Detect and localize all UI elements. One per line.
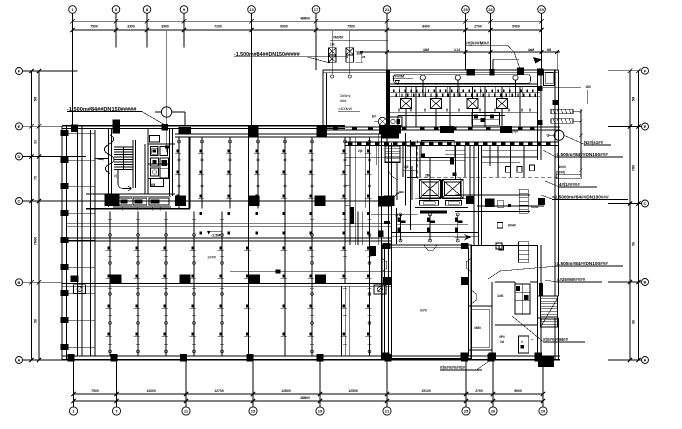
svg-text:C: C: [644, 201, 647, 206]
svg-text:3300: 3300: [127, 24, 135, 28]
svg-text:7500: 7500: [91, 389, 99, 393]
right dimension lines: [628, 69, 641, 363]
hall conduit lines upper: [179, 137, 258, 209]
svg-text:5M: 5M: [632, 96, 636, 101]
hall sprinkler circles: [109, 140, 371, 353]
panel feeder box: [372, 115, 402, 127]
svg-text:4aM: 4aM: [528, 48, 535, 52]
lobby partition lines: [482, 146, 538, 178]
svg-text:58: 58: [632, 242, 636, 246]
svg-text:26: 26: [491, 409, 496, 414]
left axis bubbles: [16, 68, 23, 364]
mid block corner blob: [382, 130, 399, 139]
annotation to 1# room: [545, 181, 597, 187]
annotation N2 line: [564, 135, 611, 145]
hall top wall: [175, 134, 392, 137]
passage lines above boiler room: [392, 233, 538, 246]
power room dividers: [390, 86, 537, 126]
annotation inlet DN150 right: [543, 150, 623, 157]
svg-text:7500: 7500: [347, 24, 355, 28]
svg-text:2|3: 2|3: [404, 165, 409, 169]
toilet hall divider wall: [188, 137, 190, 209]
power room stems: [399, 86, 522, 96]
corridor circles: [420, 75, 518, 97]
entry columns: [489, 353, 543, 361]
bottom dimension band: [71, 389, 545, 403]
annotation inlet left: [67, 107, 167, 126]
stair break line: [95, 135, 114, 174]
panel feeder runs: [398, 109, 505, 127]
corridor label: [393, 75, 414, 85]
top axis stems: [73, 13, 542, 143]
svg-text:N2#|±1##: N2#|±1##: [584, 140, 604, 145]
svg-text:1#K: 1#K: [497, 294, 504, 298]
svg-text:#|: #|: [114, 174, 117, 178]
svg-text:98: 98: [632, 320, 636, 324]
entry hall walls: [492, 282, 538, 356]
svg-text:D: D: [18, 154, 21, 159]
svg-text:33: 33: [34, 140, 38, 144]
annotation basement lighting: [512, 316, 585, 342]
corridor lines: [386, 70, 537, 132]
boiler feed conduits: [398, 213, 463, 242]
boiler door notches: [382, 245, 472, 272]
svg-text:9600: 9600: [514, 389, 522, 393]
svg-text:25: 25: [464, 409, 469, 414]
boiler room: [382, 245, 472, 358]
hall device marks: [106, 150, 372, 345]
power block outer walls: [323, 70, 559, 143]
right axis bubbles: [642, 67, 649, 363]
panel bus lines: [390, 89, 540, 96]
svg-text:25: 25: [463, 7, 468, 12]
svg-text:9#4#: 9#4#: [508, 224, 516, 228]
svg-text:58: 58: [34, 319, 38, 323]
right shaft wall: [538, 70, 542, 160]
middle block walls: [345, 137, 530, 245]
svg-text:=400kW: =400kW: [338, 107, 352, 111]
svg-text:7M0: 7M0: [632, 165, 636, 172]
svg-text:7500: 7500: [90, 24, 98, 28]
svg-text:13300: 13300: [146, 389, 156, 393]
toilet fixtures: [150, 136, 170, 188]
svg-text:A: A: [18, 358, 21, 363]
riser shaft bottom: [515, 284, 530, 314]
svg-text:-1.500m#84##DN150###: -1.500m#84##DN150###: [555, 152, 608, 157]
svg-text:8400: 8400: [422, 24, 430, 28]
svg-text:15100: 15100: [421, 389, 431, 393]
right lower walls: [538, 143, 559, 360]
svg-text:5400: 5400: [512, 24, 520, 28]
svg-text:#|#######|#: #|#######|#: [440, 365, 466, 370]
electrical closet: [519, 336, 533, 353]
svg-text:1###: 1###: [207, 255, 217, 260]
svg-text:6900: 6900: [280, 24, 288, 28]
hall level mark: [207, 231, 222, 238]
toilet stalls: [113, 196, 171, 210]
svg-text:?: ?: [531, 338, 533, 342]
lobby fixtures: [497, 130, 518, 229]
svg-text:29: 29: [539, 7, 544, 12]
shaft cabinet upper: [496, 242, 529, 262]
svg-text:2700: 2700: [474, 24, 482, 28]
svg-text:19: 19: [318, 409, 323, 414]
meter boxes: [328, 31, 388, 78]
svg-text:E: E: [644, 124, 647, 129]
power block floor band: [323, 125, 560, 134]
svg-text:44M: 44M: [423, 48, 430, 52]
boiler room columns: [382, 243, 469, 361]
svg-text:2#5m|: 2#5m|: [340, 94, 350, 98]
svg-text:48M00: 48M00: [300, 17, 310, 21]
cable tray outline: [394, 75, 531, 84]
svg-text:9#4#: 9#4#: [531, 205, 539, 209]
annotation basement feed: [440, 358, 494, 370]
svg-text:=1.5000m#84##DN100###: =1.5000m#84##DN100###: [552, 194, 609, 199]
svg-text:4#25#M#####: 4#25#M#####: [557, 277, 586, 282]
svg-text:E#: E#: [372, 115, 376, 119]
svg-text:###: ###: [340, 99, 347, 103]
hall corridor band: [67, 209, 392, 274]
svg-text:12800: 12800: [281, 389, 291, 393]
annotation outdoor supply: [465, 41, 520, 71]
svg-text:2|4: 2|4: [358, 149, 363, 153]
svg-text:3900: 3900: [161, 24, 169, 28]
svg-text:13: 13: [249, 7, 254, 12]
hall right wall: [378, 133, 405, 360]
svg-text:21: 21: [385, 409, 390, 414]
middle block band: [345, 142, 559, 146]
hall room label: [207, 255, 217, 260]
svg-text:5M: 5M: [34, 96, 38, 101]
bottom axis stems: [74, 361, 544, 407]
annotation inlet DN100 right: [541, 194, 628, 199]
top wall columns: [71, 120, 399, 137]
svg-text:180: 180: [585, 85, 591, 89]
secondary top dimension line: [360, 48, 591, 104]
annotation branch shaft: [556, 165, 581, 179]
elevator shafts: [415, 141, 468, 208]
annotation busbar symbols: [551, 109, 583, 177]
B axis band: [62, 283, 392, 286]
svg-text:-1.5M: -1.5M: [211, 234, 220, 238]
svg-text:#M#5#: #M#5#: [333, 36, 343, 40]
left wall columns: [61, 130, 96, 350]
mid stair door arcs: [371, 170, 418, 218]
svg-text:1M: 1M: [330, 43, 335, 47]
svg-text:17: 17: [314, 7, 319, 12]
mid-right connection lines: [358, 146, 498, 246]
svg-text:26: 26: [488, 7, 493, 12]
svg-text:-1.500m#84##DN150#####: -1.500m#84##DN150#####: [234, 52, 300, 58]
stair block walls: [86, 129, 175, 207]
riser cabinet: [519, 189, 538, 213]
B axis columns: [111, 275, 326, 284]
LV switch room: [472, 113, 500, 126]
svg-text:-1.500m#84##DN100###: -1.500m#84##DN100###: [555, 261, 608, 266]
middle block lower walls: [350, 207, 469, 256]
svg-text:21: 21: [385, 7, 390, 12]
C axis columns: [105, 194, 395, 206]
svg-text:#P#: #P#: [499, 335, 505, 339]
svg-text:|####|: |####|: [556, 171, 565, 175]
hall conduit lines full: [249, 137, 370, 356]
svg-text:7M00: 7M00: [34, 237, 38, 245]
svg-text:15: 15: [251, 409, 256, 414]
svg-text:#8: #8: [362, 55, 366, 59]
svg-text:4#|1#####: 4#|1#####: [559, 182, 580, 187]
boiler door arrow: [455, 234, 471, 240]
svg-text:12500: 12500: [348, 389, 358, 393]
svg-text:#|#####M##: #|#####M##: [543, 337, 569, 342]
svg-text:#d: #d: [500, 340, 504, 344]
right wall marks: [537, 86, 558, 125]
hall conduit lines lower: [110, 212, 222, 357]
lobby dashed line: [411, 140, 561, 250]
svg-text:#M#: #M#: [474, 326, 481, 330]
svg-text:4.14: 4.14: [454, 48, 460, 52]
annotation ground strip: [545, 277, 602, 282]
inlet manhole symbol: [155, 31, 185, 152]
svg-text:4M: 4M: [547, 48, 552, 52]
stair treads: [114, 140, 136, 191]
svg-text:48M00: 48M00: [300, 396, 310, 400]
svg-text:B: B: [18, 280, 21, 285]
svg-text:###: ###: [420, 308, 428, 313]
left exterior wall: [62, 125, 95, 360]
distribution panels: [401, 86, 508, 126]
B axis end symbols: [71, 276, 387, 295]
bottom axis bubbles: [69, 407, 547, 415]
top wall columns right: [467, 68, 544, 76]
svg-text:B: B: [644, 280, 647, 285]
elevator lobby extra lines: [345, 146, 538, 246]
svg-text:C: C: [18, 199, 21, 204]
upper stair: [385, 146, 400, 163]
bottom right stairs: [538, 283, 558, 367]
svg-text:29: 29: [541, 409, 546, 414]
left axis stems: [23, 71, 87, 360]
lobby small squares: [506, 165, 535, 172]
transformer room label: [338, 94, 360, 111]
elevator columns: [379, 196, 546, 207]
bottom wall columns: [68, 354, 542, 361]
top dimension band: [70, 17, 543, 33]
right circle symbol: [547, 130, 564, 140]
bottom exterior wall: [62, 356, 560, 360]
svg-text:75: 75: [34, 176, 38, 180]
annotation inlet top: [234, 52, 348, 63]
left dimension lines: [29, 69, 41, 362]
svg-text:#: #: [521, 340, 523, 344]
expansion joint walls: [342, 286, 350, 356]
panel bottom dashes: [398, 109, 530, 112]
svg-text:A: A: [644, 358, 647, 363]
small room top right: [533, 57, 581, 87]
top axis bubbles: [69, 6, 546, 14]
svg-text:7200: 7200: [214, 24, 222, 28]
svg-text:E: E: [18, 124, 21, 129]
top-left exterior wall: [62, 126, 345, 129]
room right of boiler: [469, 290, 493, 350]
svg-text:2700: 2700: [475, 389, 483, 393]
C axis line: [86, 200, 392, 202]
svg-text:(#)#: (#)#: [512, 130, 518, 134]
annotation inlet DN100 lower: [488, 261, 623, 279]
right axis stems: [608, 71, 641, 360]
svg-text:12700: 12700: [214, 389, 224, 393]
svg-text:4###: 4###: [558, 165, 566, 169]
